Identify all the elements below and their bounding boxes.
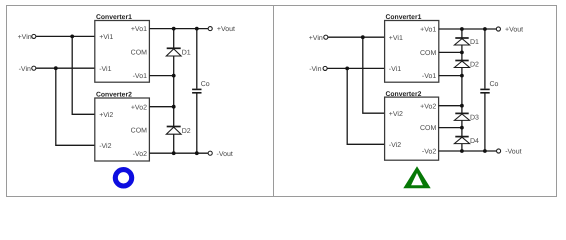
wire -Vin branch down to -Vi2 (right) [347, 68, 384, 144]
converter U2 (left Converter2) [95, 92, 150, 161]
svg-text:-Vi2: -Vi2 [389, 141, 401, 149]
capacitor Co (left) [192, 81, 210, 93]
node +Vout (left) [208, 26, 235, 33]
svg-text:+Vi2: +Vi2 [99, 111, 113, 119]
diode D1 (right) [454, 38, 479, 46]
indicator green triangle [403, 166, 430, 188]
svg-text:D2: D2 [470, 62, 479, 69]
wire +Vin to +Vi1 [36, 35, 95, 37]
wire +Vo1 to +Vout (right) [439, 28, 497, 30]
junction dot +Vo1/output rail [195, 27, 199, 31]
svg-text:D4: D4 [470, 138, 479, 145]
junction dot -Vo2/diode rail [460, 149, 464, 153]
wire +Vin branch down to +Vi2 (right) [363, 37, 385, 113]
wire output rail upper (right) [484, 29, 486, 89]
node -Vout (left) [208, 151, 233, 158]
svg-text:-Vin: -Vin [309, 65, 321, 73]
junction dot +Vo2/diode rail [460, 104, 464, 108]
junction dot -Vo2/output rail [195, 151, 199, 155]
svg-text:+Vo1: +Vo1 [420, 27, 436, 34]
svg-text:-Vi1: -Vi1 [99, 65, 111, 73]
wire mid diode rail [173, 29, 175, 154]
node +Vin (left) [18, 33, 36, 41]
junction dot +Vo2/mid rail [172, 105, 176, 109]
svg-text:+Vo2: +Vo2 [420, 103, 436, 110]
wire +Vo1 to +Vout [149, 28, 208, 30]
svg-text:+Vin: +Vin [18, 33, 32, 41]
junction dot -Vo2/output rail [483, 149, 487, 153]
wire -Vo2 to -Vout [149, 152, 208, 154]
junction dot -Vo2/mid rail [172, 151, 176, 155]
junction dot -Vo1/mid rail [172, 74, 176, 78]
junction on +Vin line (right) [361, 35, 365, 39]
wire -Vo1 to diode rail [439, 75, 462, 77]
svg-text:D3: D3 [470, 115, 479, 122]
junction dot +Vo1/mid rail [172, 27, 176, 31]
wire output rail upper [196, 29, 198, 89]
node -Vout (right) [497, 149, 522, 156]
wire -Vo1 to mid rail [149, 75, 173, 77]
wire +Vin to +Vi1 (right) [328, 36, 385, 38]
svg-text:+Vi1: +Vi1 [389, 34, 403, 42]
svg-text:D1: D1 [470, 39, 479, 46]
node +Vout (right) [496, 27, 523, 34]
svg-text:D1: D1 [182, 50, 191, 57]
junction on -Vin line [54, 66, 58, 70]
converter U1 (left Converter1) [95, 14, 150, 82]
wire COM1 to diode rail [439, 51, 462, 53]
diode D2 (right) [454, 61, 479, 69]
svg-text:-Vo2: -Vo2 [133, 151, 148, 158]
svg-text:COM: COM [131, 127, 148, 134]
svg-text:+Vout: +Vout [505, 27, 523, 34]
svg-text:Co: Co [490, 81, 499, 88]
svg-text:COM: COM [131, 50, 148, 57]
capacitor Co (right) [480, 81, 498, 93]
svg-text:COM: COM [420, 125, 437, 132]
svg-text:Co: Co [201, 81, 210, 88]
wire -Vin branch down to -Vi2 [56, 68, 95, 145]
svg-text:+Vout: +Vout [217, 26, 235, 33]
diode D1 (left) [166, 48, 190, 56]
wire +Vo2 to mid rail [149, 106, 173, 108]
wire diode rail (right) [461, 29, 463, 151]
diode D3 (right) [454, 113, 479, 121]
node -Vin (left) [19, 65, 36, 73]
svg-text:-Vo1: -Vo1 [422, 73, 437, 80]
svg-text:COM: COM [420, 50, 437, 57]
svg-text:+Vin: +Vin [309, 34, 323, 42]
diode D4 (right) [454, 137, 479, 145]
border frame [7, 6, 557, 197]
wire -Vo2 to -Vout (right) [439, 150, 497, 152]
junction on -Vin line (right) [345, 67, 349, 71]
junction on +Vin line [70, 35, 74, 39]
indicator blue circle [115, 170, 131, 186]
junction dot +Vo1/output rail [483, 27, 487, 31]
node -Vin (right) [309, 65, 327, 73]
svg-text:-Vout: -Vout [217, 151, 233, 158]
svg-text:+Vo2: +Vo2 [131, 104, 147, 111]
junction dot COM1/diode rail [460, 51, 464, 55]
wire output rail lower (right) [484, 93, 486, 151]
wire output rail lower [196, 93, 198, 153]
svg-text:+Vo1: +Vo1 [131, 26, 147, 33]
wire -Vin to -Vi1 [36, 67, 95, 69]
svg-text:-Vi1: -Vi1 [389, 65, 401, 73]
wire +Vin branch down to +Vi2 [72, 36, 95, 114]
wire +Vo2 to diode rail [439, 105, 462, 107]
converter U4 (right Converter2) [385, 91, 439, 160]
junction dot +Vo1/diode rail [460, 27, 464, 31]
svg-text:+Vi1: +Vi1 [99, 33, 113, 41]
junction dot COM2/diode rail [460, 126, 464, 130]
converter U3 (right Converter1) [385, 14, 439, 82]
svg-text:D2: D2 [182, 128, 191, 135]
wire -Vin to -Vi1 (right) [327, 67, 384, 69]
svg-text:-Vo1: -Vo1 [133, 73, 148, 80]
diode D2 (left) [166, 127, 190, 135]
svg-text:-Vin: -Vin [19, 65, 31, 73]
svg-text:-Vo2: -Vo2 [422, 149, 437, 156]
junction dot -Vo1/diode rail [460, 74, 464, 78]
node +Vin (right) [309, 34, 328, 42]
wire COM2 to diode rail [439, 127, 462, 129]
svg-text:+Vi2: +Vi2 [389, 110, 403, 118]
svg-text:-Vout: -Vout [505, 149, 521, 156]
svg-text:-Vi2: -Vi2 [99, 142, 111, 150]
